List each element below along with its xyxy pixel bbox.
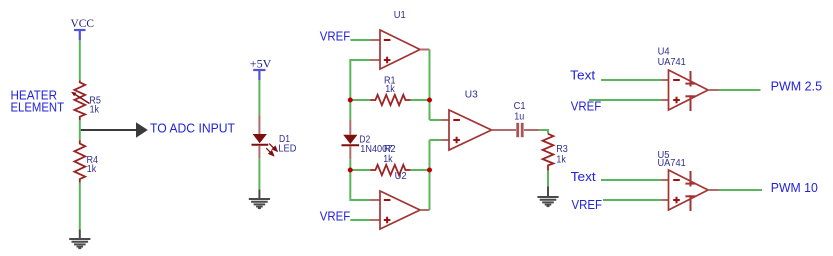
wire U2 output up right rail: [429, 140, 431, 210]
svg-text:1u: 1u: [514, 112, 524, 123]
diode D2: [343, 135, 357, 144]
diode D1: [253, 134, 267, 143]
wire U4 output: [719, 89, 761, 91]
pin U2 non-inverting input: [370, 219, 380, 221]
svg-text:U2: U2: [395, 171, 407, 182]
wire R4 to ground: [79, 183, 81, 230]
junction node B (350,170): [348, 168, 353, 173]
pin U4 non-inverting input: [661, 99, 669, 101]
wire C1 to R3: [539, 130, 548, 134]
pin U1 non-inverting input: [370, 59, 380, 61]
pin U2 inverting input: [370, 199, 380, 201]
wire node A to R1: [350, 99, 370, 101]
svg-text:1k: 1k: [556, 155, 566, 166]
svg-text:TO ADC INPUT: TO ADC INPUT: [150, 120, 235, 135]
power symbol +5V: [253, 70, 265, 80]
svg-text:U1: U1: [394, 10, 406, 21]
wire R1 to right rail: [411, 99, 430, 101]
svg-text:Text: Text: [571, 169, 596, 184]
svg-text:VCC: VCC: [71, 16, 95, 30]
wire +5V to D1: [258, 80, 260, 116]
svg-text:1k: 1k: [87, 164, 97, 175]
svg-text:VREF: VREF: [320, 208, 351, 223]
pin U2 output: [420, 209, 430, 211]
wire R3 to ground: [547, 171, 549, 187]
wire node A down to D2: [349, 100, 351, 120]
U5 V- power pin: [685, 195, 695, 211]
R5 wiper arrow: [75, 95, 89, 104]
wire Text to U5 inverting input: [601, 179, 661, 181]
U5 V+ power pin: [685, 171, 695, 187]
pin D1 cathode: [258, 146, 260, 159]
pin U3 non-inverting input: [441, 139, 449, 141]
svg-text:LED: LED: [278, 144, 296, 155]
op-amp U4: [669, 70, 709, 110]
ground (D1): [249, 199, 270, 208]
pin U4 output: [708, 89, 719, 91]
op-amp U3: [449, 110, 492, 150]
resistor R5: [74, 81, 85, 121]
wire node B down to U2 inverting input: [350, 170, 370, 200]
svg-text:C1: C1: [514, 101, 526, 112]
resistor R1: [370, 95, 410, 105]
svg-text:VREF: VREF: [572, 197, 603, 212]
wire VREF to U2 non-inverting input: [350, 219, 370, 221]
pin U4 inverting input: [661, 79, 669, 81]
pin D1 anode: [258, 116, 260, 135]
wire R2 to right rail: [411, 169, 430, 171]
wire VREF to U1 inverting input: [350, 39, 370, 41]
svg-text:R3: R3: [556, 144, 568, 155]
pin U5 non-inverting input: [661, 199, 669, 201]
wire node B to R2: [350, 169, 370, 171]
svg-text:1k: 1k: [383, 154, 393, 165]
capacitor C1: [518, 123, 523, 137]
resistor R4: [74, 140, 85, 182]
op-amp U2: [380, 191, 420, 229]
wire R5 to R4: [79, 120, 81, 140]
wire VREF to U5 non-inverting input: [603, 199, 661, 201]
pin C1 right: [524, 129, 539, 131]
wire VREF to U4 non-inverting input: [589, 99, 661, 101]
pin U3 inverting input: [441, 119, 449, 121]
pin U1 inverting input: [370, 39, 380, 41]
LED arrows D1: [266, 144, 277, 156]
wire D2 to node B: [349, 159, 351, 170]
wire U1 non-inverting input from node A: [350, 60, 370, 100]
svg-text:U3: U3: [465, 90, 478, 101]
pin U5 inverting input: [661, 179, 669, 181]
op-amp U1: [380, 30, 420, 69]
wire VCC to R5: [79, 40, 81, 81]
svg-text:ELEMENT: ELEMENT: [11, 100, 65, 115]
U4 V+ power pin: [685, 71, 695, 87]
wire Text to U4 inverting input: [601, 79, 661, 81]
ground (left): [69, 239, 90, 248]
pin D2 cathode: [349, 146, 351, 159]
wire D1 to ground: [258, 158, 260, 189]
wire right rail to U3 non-inverting input: [430, 139, 442, 141]
pin U1 output: [420, 49, 430, 51]
resistor R2: [370, 165, 410, 175]
junction node C (429.5,100): [427, 98, 432, 103]
U4 V- power pin: [685, 95, 695, 111]
ground (R3): [537, 197, 558, 206]
svg-text:PWM 2.5: PWM 2.5: [771, 79, 823, 94]
svg-text:Text: Text: [570, 68, 595, 83]
svg-text:UA741: UA741: [658, 158, 687, 169]
pin D2 anode: [349, 120, 351, 135]
junction node A (350,100): [348, 98, 353, 103]
pin U5 output: [708, 189, 719, 191]
svg-text:VREF: VREF: [320, 29, 351, 44]
svg-text:1k: 1k: [385, 84, 395, 95]
svg-text:+5V: +5V: [250, 56, 272, 70]
svg-text:1k: 1k: [90, 104, 100, 115]
svg-text:PWM 10: PWM 10: [771, 180, 818, 195]
op-amp U5: [669, 170, 709, 210]
pin U3 output / wire to C1: [492, 129, 517, 131]
power symbol VCC: [74, 30, 86, 40]
wire U5 output: [719, 189, 762, 191]
junction node D (429.5,170): [427, 168, 432, 173]
svg-text:UA741: UA741: [658, 57, 687, 68]
arrow to ADC input: [81, 129, 137, 131]
wire right rail to U3 inverting input: [430, 119, 442, 121]
resistor R3: [543, 134, 554, 171]
wire U1 output down right rail: [429, 50, 431, 121]
